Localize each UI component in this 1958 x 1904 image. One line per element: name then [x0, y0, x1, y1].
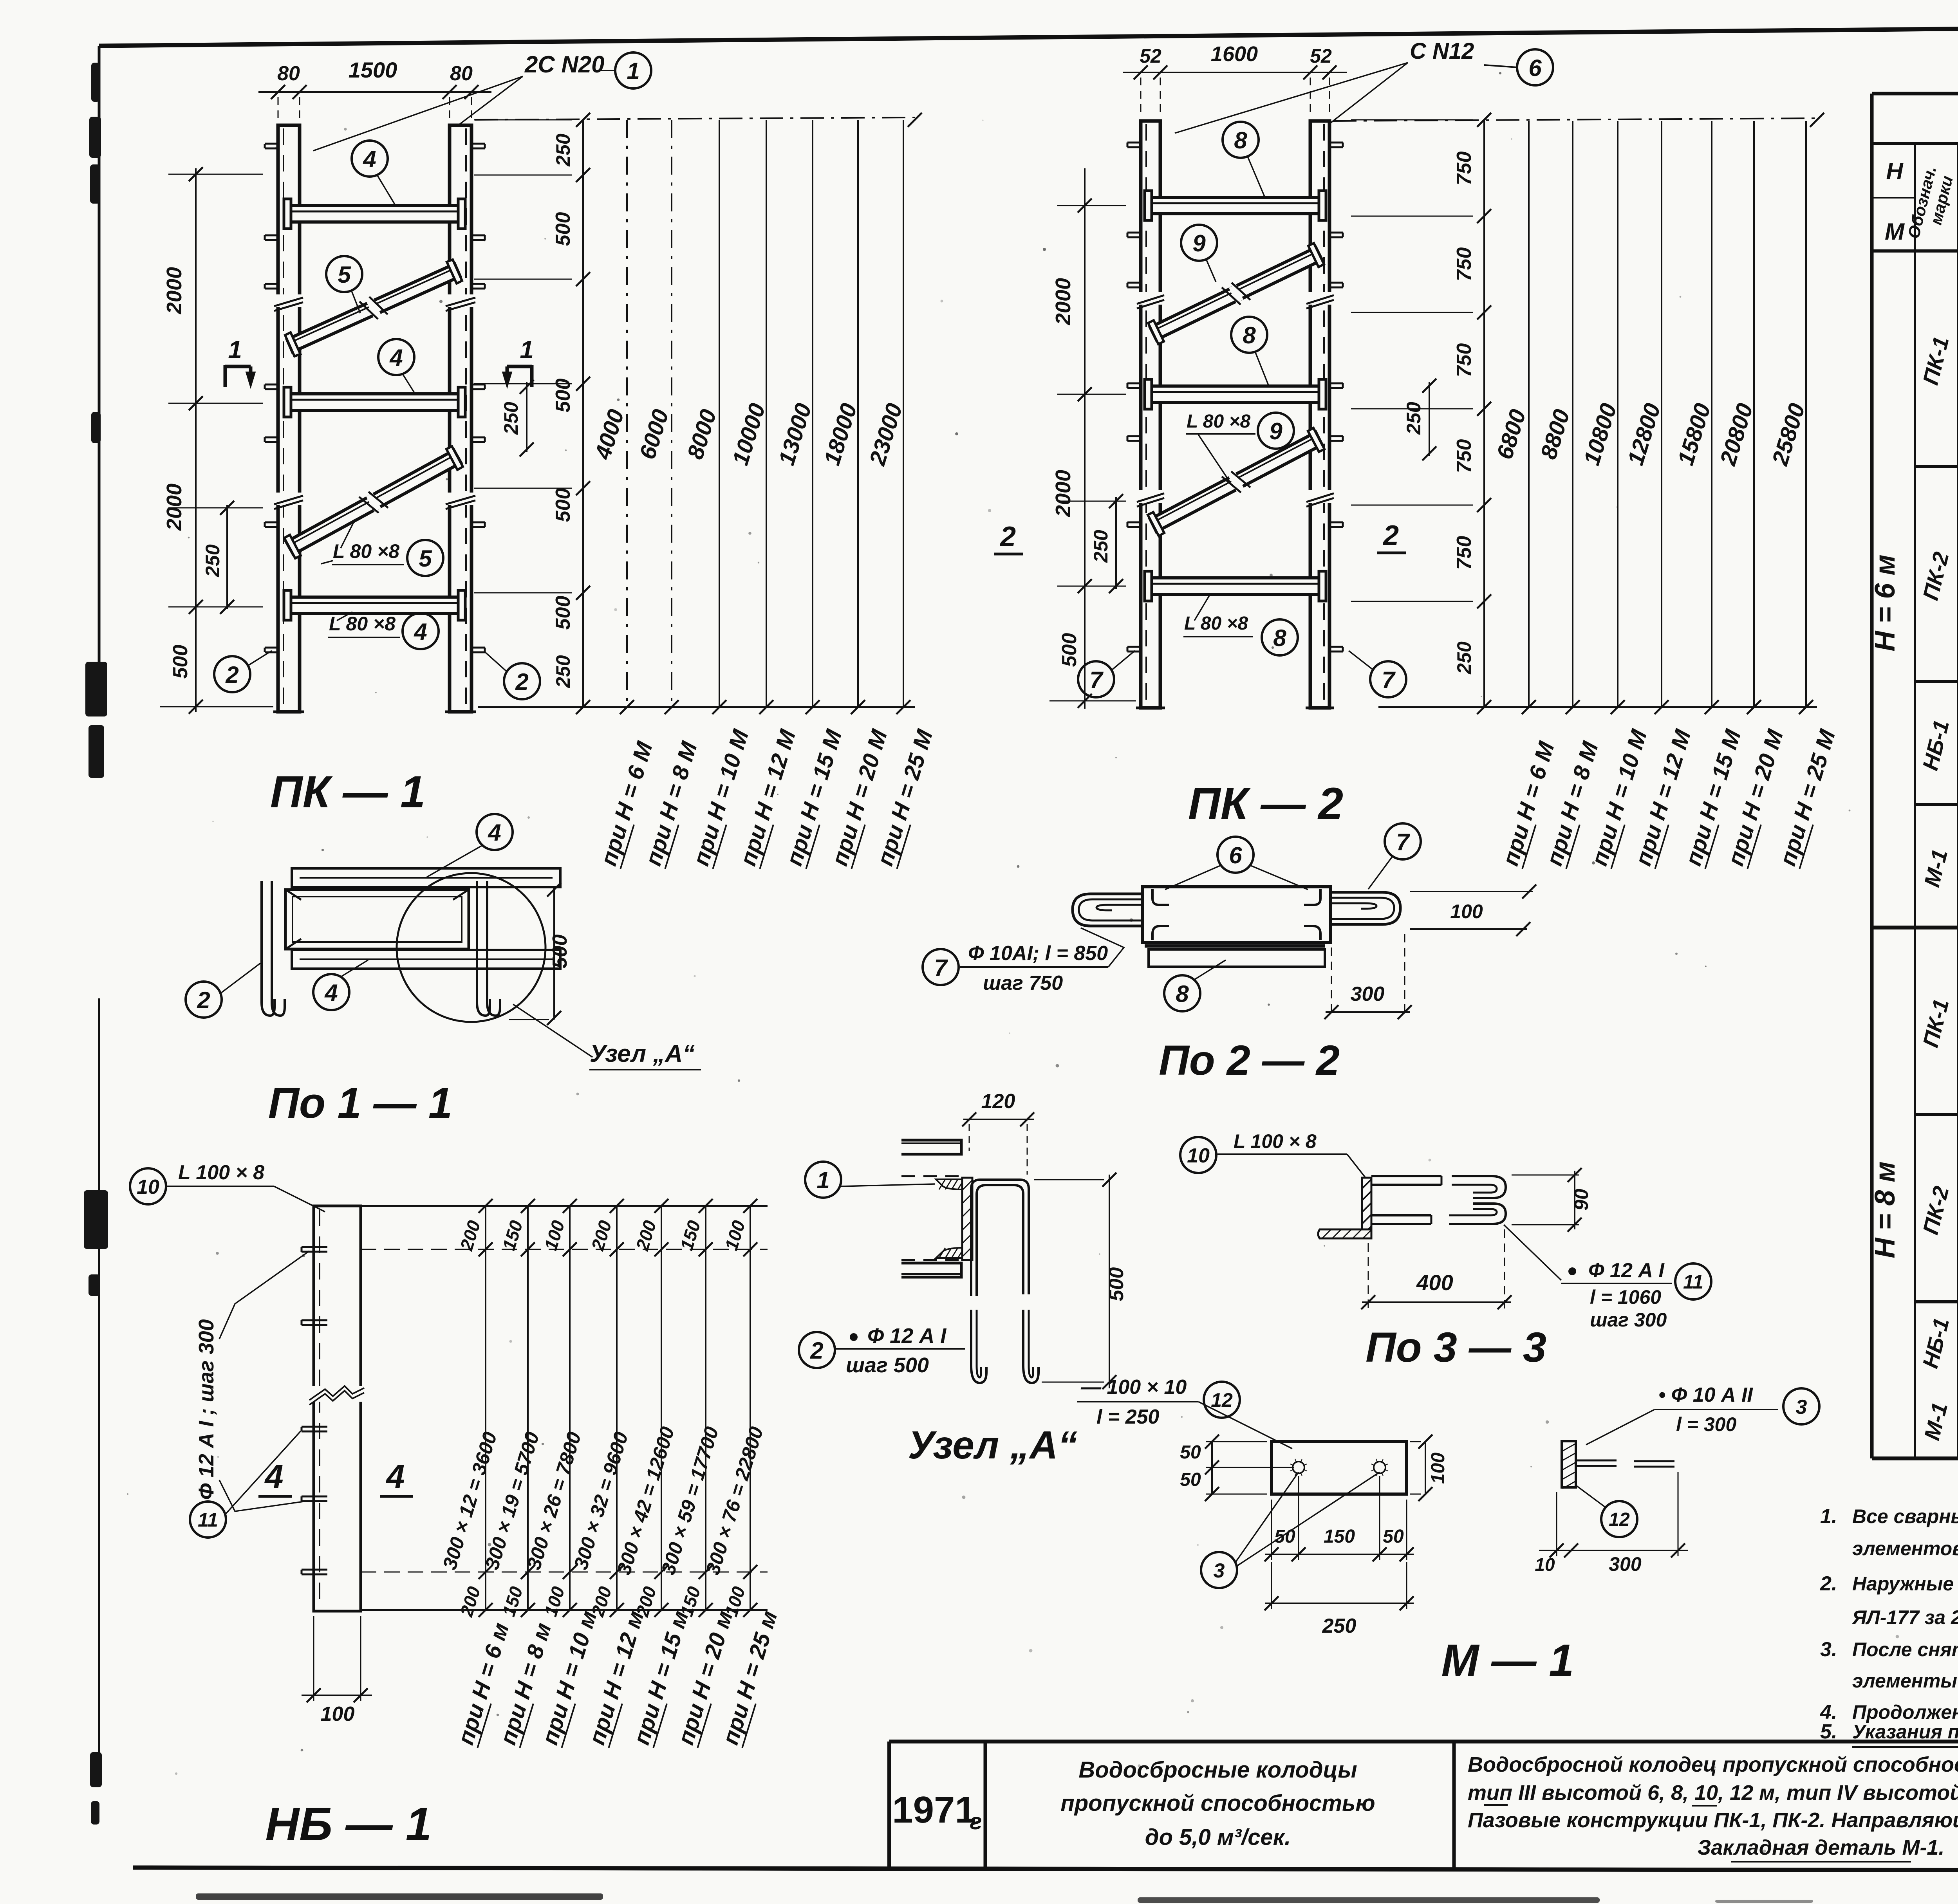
svg-text:шаг 300: шаг 300	[1590, 1309, 1667, 1331]
rung 4 PK-1 middle	[284, 387, 465, 417]
diagonal brace 9 PK-2 upper	[1148, 243, 1324, 344]
title M-1	[1441, 1635, 1574, 1686]
svg-text:до 5,0 м³/сек.: до 5,0 м³/сек.	[1145, 1825, 1291, 1850]
title block project name	[1060, 1757, 1375, 1850]
PK-1 right dimension chain 250/500s	[474, 113, 590, 714]
svg-text:элементов. Сварку производит: элементов. Сварку производить электродам…	[1852, 1538, 1958, 1559]
svg-text:4: 4	[363, 146, 376, 172]
svg-text:250: 250	[500, 402, 522, 435]
callout 7 PK-2 bottom right	[1349, 651, 1406, 697]
svg-text:7: 7	[934, 955, 948, 981]
svg-text:50: 50	[1383, 1526, 1404, 1547]
callout 2 PK-1 bottom right	[485, 652, 540, 699]
break marks PK-1 columns	[274, 294, 475, 509]
svg-text:15800: 15800	[1673, 401, 1716, 468]
callout 8 Po 2-2	[1164, 960, 1226, 1011]
svg-text:НБ — 1: НБ — 1	[265, 1798, 432, 1850]
svg-text:8: 8	[1273, 625, 1286, 651]
column C N12 PK-2 right	[1306, 121, 1334, 708]
svg-text:Ф 12 А I: Ф 12 А I	[867, 1324, 946, 1348]
svg-text:тип III высотой 6, 8, 10, 12: тип III высотой 6, 8, 10, 12 м, тип IV в…	[1468, 1781, 1958, 1805]
title Uzel A	[908, 1423, 1078, 1467]
svg-text:6: 6	[1229, 842, 1242, 868]
Po 1-1 500 dim	[470, 883, 571, 1025]
Uzel A channel flange bottom	[901, 1248, 964, 1277]
M-1 side anchor rod	[1576, 1460, 1674, 1467]
svg-text:l = 1060: l = 1060	[1590, 1286, 1661, 1308]
section Po 2-2 left anchor 7	[1073, 894, 1142, 926]
anchor stubs PK-2 right column	[1329, 143, 1343, 652]
break marks PK-2 columns	[1137, 292, 1334, 507]
svg-text:Пазовые конструкции ПК-1, П: Пазовые конструкции ПК-1, ПК-2. Направля…	[1468, 1808, 1958, 1832]
svg-text:H = 8 м: H = 8 м	[1869, 1161, 1901, 1258]
svg-text:L 80 ×8: L 80 ×8	[1184, 613, 1248, 634]
callout 5 upper diagonal PK-1	[326, 256, 362, 313]
svg-text:1: 1	[228, 336, 242, 364]
svg-text:Продолжение спецификации мет: Продолжение спецификации металла см. на …	[1852, 1701, 1958, 1723]
anchor stubs PK-1 left column	[265, 144, 278, 652]
svg-text:3: 3	[1796, 1396, 1807, 1419]
left margin scan artifacts	[84, 63, 108, 1825]
Po 2-2 300 dim	[1324, 934, 1412, 1019]
svg-text:По 1 — 1: По 1 — 1	[268, 1079, 452, 1127]
svg-text:10: 10	[1187, 1144, 1210, 1167]
M-1 left 50/50 dims	[1180, 1435, 1294, 1501]
svg-text:250: 250	[1403, 402, 1425, 435]
svg-text:7: 7	[1382, 667, 1396, 693]
PK-2 right inner 250 dim	[1403, 379, 1436, 460]
Po 2-2 100 dim	[1410, 884, 1536, 936]
svg-text:5: 5	[338, 262, 351, 288]
svg-text:100: 100	[1428, 1453, 1449, 1484]
svg-text:2: 2	[1382, 520, 1399, 551]
callout 8 middle rung PK-2	[1231, 317, 1269, 386]
svg-text:80: 80	[450, 62, 473, 85]
svg-text:По 3 — 3: По 3 — 3	[1366, 1323, 1546, 1371]
Po 3-3 weld strip hatched	[1362, 1178, 1371, 1236]
section mark 1-1 left	[225, 336, 255, 388]
title Po 2-2	[1159, 1036, 1340, 1084]
svg-text:ПК — 1: ПК — 1	[270, 767, 425, 817]
svg-text:1.: 1.	[1820, 1505, 1837, 1528]
svg-text:1: 1	[520, 336, 534, 364]
title PK-1	[270, 767, 425, 817]
svg-text:750: 750	[1453, 536, 1476, 570]
svg-text:1600: 1600	[1211, 42, 1258, 66]
Uzel A staple rod 2	[971, 1180, 1029, 1296]
PK-1 top dimension line 80/1500/80	[258, 58, 491, 122]
svg-text:9: 9	[1192, 230, 1206, 256]
svg-text:2: 2	[810, 1337, 823, 1364]
spec table outer frame and header	[1872, 94, 1958, 251]
column C N12 PK-2 left	[1136, 121, 1165, 708]
svg-text:12800: 12800	[1623, 401, 1665, 468]
svg-text:ЯЛ-177 за 2 раза.: ЯЛ-177 за 2 раза.	[1851, 1606, 1958, 1628]
svg-text:3.: 3.	[1820, 1638, 1837, 1661]
section Po 1-1 left anchor rods 2	[262, 881, 285, 1016]
M-1 right 100 dim	[1410, 1435, 1449, 1501]
svg-text:М: М	[1885, 218, 1905, 245]
svg-text:8: 8	[1234, 127, 1247, 153]
svg-text:L 100 × 8: L 100 × 8	[178, 1161, 264, 1184]
callout 12 M-1 side	[1577, 1486, 1637, 1537]
svg-text:Закладная деталь М-1.: Закладная деталь М-1.	[1698, 1836, 1945, 1859]
label f10AII l=300 + callout 3 side	[1586, 1384, 1819, 1445]
svg-text:l = 250: l = 250	[1096, 1406, 1160, 1428]
label Uzel A leader	[513, 1004, 701, 1070]
diagonal brace 5 PK-1 upper	[285, 260, 462, 356]
sheet frame top border	[99, 22, 1958, 46]
svg-text:500: 500	[1105, 1267, 1128, 1301]
bottom edge scan smudges	[196, 1893, 1958, 1903]
svg-text:100: 100	[540, 1584, 569, 1619]
label f10AI l=850 shag 750 + callout 7	[923, 928, 1124, 994]
column C N20 PK-1 left	[273, 125, 304, 712]
PK-2 right dimension chain 750s	[1351, 113, 1491, 714]
svg-text:250: 250	[1090, 530, 1112, 563]
svg-text:100: 100	[721, 1218, 749, 1253]
svg-text:шаг 500: шаг 500	[846, 1354, 929, 1377]
svg-text:200: 200	[456, 1218, 484, 1253]
svg-text:L 80 ×8: L 80 ×8	[329, 613, 396, 635]
callout 4 top rung PK-1	[352, 141, 396, 206]
svg-text:6: 6	[1528, 55, 1542, 81]
svg-text:М — 1: М — 1	[1441, 1635, 1574, 1686]
label C N12 with leaders	[1175, 38, 1474, 133]
callout circle 1 PK-1	[595, 52, 651, 88]
M-1 side 10/300 dims	[1535, 1472, 1688, 1575]
diagonal brace 9 PK-2 lower	[1148, 428, 1324, 536]
svg-text:4: 4	[324, 980, 338, 1006]
diagonal brace 5 PK-1 lower	[284, 446, 463, 558]
PK-1 fan pri H labels	[596, 726, 938, 869]
svg-text:ПК-2: ПК-2	[1918, 1184, 1953, 1237]
M-1 plate holes 3	[1290, 1459, 1388, 1476]
svg-text:6000: 6000	[634, 406, 674, 462]
M-1 bottom 50/150/50 dims	[1264, 1476, 1414, 1637]
label f12AI l=1060 shag 300 + callout 11	[1504, 1225, 1711, 1331]
svg-text:2: 2	[197, 987, 210, 1013]
svg-text:Ф 12 А I: Ф 12 А I	[1588, 1259, 1665, 1282]
svg-text:200: 200	[587, 1218, 616, 1253]
title NB-1	[265, 1798, 432, 1850]
label L80x8 + callout 4 bottom rung PK-1	[328, 612, 439, 649]
svg-text:52: 52	[1310, 45, 1332, 67]
svg-text:120: 120	[981, 1090, 1015, 1113]
svg-text:50: 50	[1180, 1469, 1201, 1490]
label -100x10 l=250 + callout 12	[1077, 1376, 1292, 1449]
anchor stubs PK-1 right column	[471, 144, 485, 652]
svg-text:ПК — 2: ПК — 2	[1188, 779, 1343, 829]
svg-text:750: 750	[1453, 152, 1476, 186]
label 2C N20 with leaders	[313, 51, 604, 151]
svg-text:Ф 10АI; l = 850: Ф 10АI; l = 850	[968, 942, 1108, 965]
callout 2 anchors Po 1-1	[186, 963, 260, 1018]
svg-text:300: 300	[1351, 983, 1385, 1005]
Uzel A lower hook pieces	[971, 1310, 1039, 1383]
svg-text:13000: 13000	[774, 401, 816, 468]
Uzel A channel flange top	[901, 1140, 964, 1189]
title Po 1-1	[268, 1079, 452, 1127]
NB-1 break mark	[309, 1386, 364, 1405]
sheet frame left border	[98, 46, 101, 1762]
svg-text:10000: 10000	[728, 401, 770, 468]
svg-text:200: 200	[632, 1218, 660, 1253]
column C N20 PK-1 right	[445, 125, 476, 712]
section Po 2-2 channel body	[1142, 887, 1331, 942]
svg-text:М-1: М-1	[1919, 847, 1952, 890]
NB-1 guide bar L100x8	[314, 1206, 361, 1611]
callout 11 NB-1	[190, 1431, 301, 1538]
callout 8 top rung PK-2	[1223, 122, 1265, 197]
svg-text:1: 1	[627, 58, 639, 84]
M-1 plate plan	[1272, 1442, 1407, 1494]
svg-text:250: 250	[552, 655, 574, 688]
Po 3-3 angle horizontal leg hatched	[1318, 1229, 1372, 1238]
svg-text:500: 500	[169, 645, 192, 679]
svg-text:2: 2	[515, 669, 528, 695]
spec table H column labels	[1869, 554, 1901, 1258]
svg-text:4: 4	[385, 1458, 405, 1495]
svg-text:250: 250	[202, 544, 224, 578]
svg-text:10: 10	[137, 1176, 159, 1198]
svg-text:500: 500	[552, 596, 574, 630]
svg-text:150: 150	[676, 1218, 704, 1253]
svg-text:H = 6 м: H = 6 м	[1869, 554, 1901, 651]
svg-text:при H = 25 М: при H = 25 М	[1775, 726, 1841, 869]
svg-text:4: 4	[264, 1458, 283, 1495]
section mark 1-1 right	[502, 336, 534, 388]
Po 3-3 90 dim	[1512, 1168, 1592, 1232]
svg-text:12: 12	[1211, 1389, 1233, 1411]
svg-text:Узел „А“: Узел „А“	[908, 1423, 1078, 1467]
title block frame	[889, 1742, 1958, 1868]
PK-2 heights fan	[1333, 113, 1824, 714]
svg-text:• Ф 10 А II: • Ф 10 А II	[1658, 1384, 1753, 1406]
section Po 1-1 right anchor rods 2	[477, 881, 500, 1016]
rung 8 PK-2 middle	[1145, 379, 1326, 409]
svg-text:150: 150	[499, 1218, 527, 1253]
svg-text:Н: Н	[1886, 158, 1904, 184]
svg-text:2: 2	[999, 521, 1016, 552]
svg-text:1500: 1500	[349, 58, 397, 82]
Uzel A 120 dim	[962, 1090, 1034, 1175]
notes list	[1820, 1505, 1958, 1747]
svg-text:50: 50	[1180, 1442, 1201, 1463]
PK-2 top dimension line 52/1600/52	[1123, 42, 1347, 117]
svg-text:2С N20: 2С N20	[524, 51, 604, 78]
svg-text:7: 7	[1089, 667, 1104, 693]
svg-text:1: 1	[816, 1167, 829, 1193]
NB-1 fan pri H labels	[453, 1608, 783, 1748]
section Po 2-2 right anchor 7	[1331, 892, 1400, 924]
svg-text:По 2 — 2: По 2 — 2	[1159, 1036, 1340, 1084]
svg-text:г: г	[970, 1809, 982, 1834]
svg-text:Все сварные швы принимать п: Все сварные швы принимать по наименьшей …	[1852, 1505, 1958, 1527]
svg-text:10: 10	[1535, 1554, 1555, 1575]
Po 3-3 400 dim	[1361, 1229, 1512, 1310]
svg-text:L 100 × 8: L 100 × 8	[1234, 1130, 1317, 1152]
svg-text:Ф 12 А I ; шаг 300: Ф 12 А I ; шаг 300	[195, 1319, 218, 1500]
svg-text:400: 400	[1416, 1270, 1453, 1295]
label L80x8 + callout 8 bottom rung PK-2	[1183, 594, 1298, 655]
svg-text:4: 4	[488, 819, 501, 846]
svg-text:150: 150	[1324, 1526, 1355, 1547]
svg-text:11: 11	[1683, 1271, 1703, 1293]
svg-text:80: 80	[277, 62, 300, 85]
NB-1 rebar label f12AI shag 300	[195, 1251, 309, 1511]
section Po 1-1 channel body	[285, 890, 469, 959]
svg-text:шаг 750: шаг 750	[983, 972, 1063, 994]
svg-text:2.: 2.	[1820, 1572, 1837, 1595]
svg-text:9: 9	[1269, 418, 1282, 444]
svg-text:Водосбросные колодцы: Водосбросные колодцы	[1078, 1757, 1357, 1783]
Uzel A 500 dim	[1034, 1173, 1128, 1389]
Uzel A channel web hatched	[962, 1178, 972, 1260]
svg-text:250: 250	[1453, 641, 1475, 675]
svg-text:150: 150	[499, 1584, 527, 1619]
svg-text:90: 90	[1570, 1189, 1592, 1211]
callout 7 Po 2-2 right	[1368, 823, 1421, 889]
label L80x8 + callout 9 lower diagonal PK-2	[1186, 411, 1294, 482]
svg-text:750: 750	[1453, 439, 1476, 473]
section mark 2 left	[994, 521, 1023, 554]
svg-text:20800: 20800	[1715, 401, 1758, 469]
svg-text:7: 7	[1396, 829, 1410, 855]
callout 1 Uzel A	[805, 1162, 935, 1198]
rung 8 PK-2 bottom	[1145, 571, 1326, 601]
svg-text:11: 11	[198, 1509, 218, 1531]
svg-text:ПК-2: ПК-2	[1918, 549, 1953, 603]
svg-text:ПК-1: ПК-1	[1918, 334, 1953, 387]
svg-text:l = 300: l = 300	[1676, 1413, 1736, 1435]
svg-text:500: 500	[552, 488, 574, 522]
svg-text:500: 500	[1058, 633, 1081, 667]
svg-text:Указания по изготовлению паз: Указания по изготовлению пазовых констру…	[1852, 1721, 1958, 1743]
svg-text:4: 4	[389, 345, 403, 371]
svg-text:100: 100	[1450, 901, 1483, 922]
svg-text:— 100 × 10: — 100 × 10	[1080, 1376, 1187, 1399]
label L80x8 + callout 5 lower diagonal PK-1	[321, 521, 443, 576]
PK-1 heights fan	[475, 113, 922, 714]
section Po 1-1 top plate 4	[292, 868, 560, 887]
callout 9 upper diagonal PK-2	[1181, 225, 1217, 282]
Po 3-3 channel piece with hooks	[1371, 1176, 1506, 1224]
svg-text:6800: 6800	[1492, 406, 1531, 462]
NB-1 section marks 4-4	[258, 1458, 413, 1496]
callout 10 NB-1 with label	[130, 1161, 325, 1212]
svg-text:3: 3	[1214, 1559, 1225, 1582]
callout 3 M-1 holes	[1201, 1472, 1380, 1588]
callout 10 Po 3-3 with label	[1180, 1130, 1366, 1178]
svg-text:Наружные поверхности метал: Наружные поверхности металлоконструкций …	[1852, 1573, 1958, 1595]
svg-text:8: 8	[1176, 981, 1189, 1007]
callout 4 bottom plate Po 1-1	[313, 960, 368, 1010]
NB-1 bottom 100 dim	[302, 1616, 372, 1725]
svg-text:Узел „А“: Узел „А“	[590, 1040, 695, 1067]
svg-text:12: 12	[1609, 1509, 1630, 1530]
rung 4 PK-1 top	[284, 199, 465, 229]
svg-text:8: 8	[1243, 322, 1256, 348]
svg-text:После снятия опалубки в: После снятия опалубки в пазовой конструк…	[1852, 1639, 1958, 1660]
callout circle 6 PK-2	[1484, 49, 1553, 85]
svg-text:4000: 4000	[590, 406, 629, 462]
callout 4 middle rung PK-1	[378, 339, 415, 394]
detail circle A on Po 1-1	[397, 873, 545, 1022]
svg-text:300: 300	[1609, 1553, 1642, 1575]
callout 4 top plate Po 1-1	[427, 814, 513, 877]
svg-text:250: 250	[552, 134, 574, 167]
callout 2 Uzel A with label	[799, 1324, 965, 1377]
svg-text:2: 2	[225, 662, 238, 688]
svg-text:100: 100	[540, 1218, 569, 1253]
NB-1 offsets fan	[361, 1199, 768, 1619]
section Po 2-2 bottom plate 8	[1145, 946, 1325, 967]
svg-text:10800: 10800	[1579, 401, 1622, 468]
svg-text:С N12: С N12	[1410, 38, 1474, 64]
svg-text:100: 100	[321, 1703, 355, 1725]
svg-text:1971: 1971	[892, 1789, 976, 1831]
spec table column headers	[1872, 157, 1958, 245]
svg-text:52: 52	[1140, 45, 1161, 67]
svg-text:2000: 2000	[1051, 278, 1075, 325]
M-1 side plate with weld	[1562, 1441, 1576, 1489]
svg-text:750: 750	[1453, 343, 1476, 377]
svg-text:2000: 2000	[163, 267, 186, 314]
NB-1 anchor stubs 11	[302, 1247, 327, 1574]
PK-1 right inner 250 dim	[500, 380, 534, 457]
svg-text:25800: 25800	[1767, 401, 1810, 469]
svg-text:НБ-1: НБ-1	[1918, 718, 1954, 773]
svg-text:500: 500	[549, 935, 571, 969]
svg-text:ПК-1: ПК-1	[1918, 996, 1953, 1050]
spec table data rows grid	[1872, 22, 1958, 1458]
rung 8 PK-2 top	[1145, 191, 1326, 220]
svg-text:2000: 2000	[1051, 470, 1075, 517]
svg-text:4: 4	[414, 619, 427, 645]
svg-text:М-1: М-1	[1919, 1400, 1952, 1443]
PK-2 left dimension chain 2000/2000/500	[1049, 168, 1136, 709]
rung 4 PK-1 bottom	[284, 590, 465, 620]
PK-2 fan pri H labels	[1497, 726, 1841, 869]
callout 6 Po 2-2	[1165, 837, 1308, 890]
svg-text:750: 750	[1453, 247, 1476, 282]
title PK-2	[1188, 779, 1343, 829]
title Po 3-3	[1366, 1323, 1546, 1371]
svg-text:200: 200	[456, 1584, 484, 1619]
svg-text:5: 5	[419, 545, 432, 572]
svg-text:Водосбросной колодец пропуск: Водосбросной колодец пропускной способно…	[1468, 1753, 1958, 1776]
svg-text:18000: 18000	[819, 401, 862, 468]
svg-text:L 80 ×8: L 80 ×8	[1187, 411, 1251, 432]
section mark 2 right	[1377, 520, 1406, 553]
svg-text:8800: 8800	[1535, 406, 1575, 462]
anchor stubs PK-2 left column	[1127, 143, 1141, 652]
svg-text:НБ-1: НБ-1	[1918, 1316, 1954, 1371]
PK-1 left dimension chain 2000/2000/500	[160, 167, 273, 714]
svg-text:23000: 23000	[864, 401, 907, 469]
title block year 1971	[892, 1789, 982, 1834]
title block sheet description	[1468, 1753, 1958, 1862]
svg-text:пропускной способностью: пропускной способностью	[1060, 1790, 1375, 1816]
svg-text:250: 250	[1322, 1615, 1357, 1637]
sheet frame bottom border	[133, 1868, 1958, 1871]
svg-text:элементы позиции 4 и 5 ср: элементы позиции 4 и 5 срезать только с …	[1852, 1670, 1958, 1692]
callout 7 PK-2 bottom left	[1078, 651, 1135, 697]
callout 2 PK-1 bottom left	[214, 651, 272, 692]
spec table marka group labels and weights	[1918, 334, 1958, 1442]
section Po 1-1 bottom plate 4	[292, 950, 560, 969]
